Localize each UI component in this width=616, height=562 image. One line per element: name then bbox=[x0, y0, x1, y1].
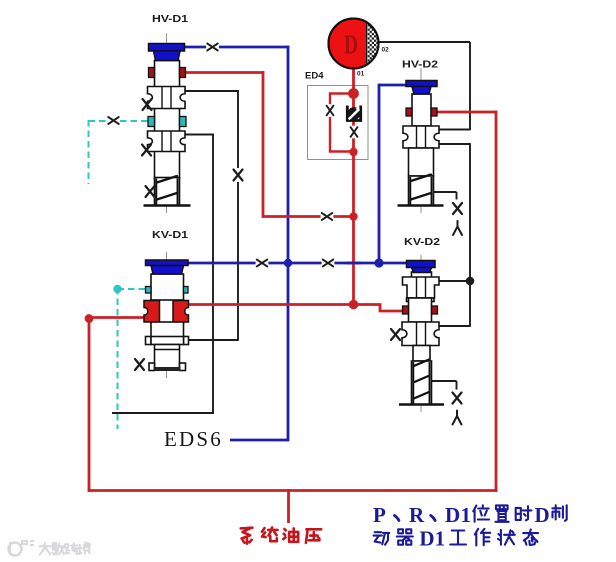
svg-text:D: D bbox=[535, 503, 550, 527]
svg-text:ED4: ED4 bbox=[305, 71, 324, 82]
svg-text:D: D bbox=[344, 31, 358, 61]
svg-text:KV-D2: KV-D2 bbox=[404, 237, 441, 248]
svg-text:P: P bbox=[373, 503, 386, 527]
svg-text:1: 1 bbox=[435, 527, 446, 551]
svg-text:1: 1 bbox=[461, 503, 472, 527]
svg-text:KV-D1: KV-D1 bbox=[152, 230, 189, 241]
svg-text:HV-D2: HV-D2 bbox=[402, 60, 439, 71]
svg-text:R: R bbox=[409, 503, 425, 527]
svg-text:EDS6: EDS6 bbox=[164, 427, 223, 451]
svg-text:D: D bbox=[419, 527, 434, 551]
svg-text:01: 01 bbox=[357, 71, 365, 78]
svg-text:D: D bbox=[445, 503, 460, 527]
svg-text:HV-D1: HV-D1 bbox=[152, 14, 189, 25]
svg-text:02: 02 bbox=[382, 47, 390, 54]
